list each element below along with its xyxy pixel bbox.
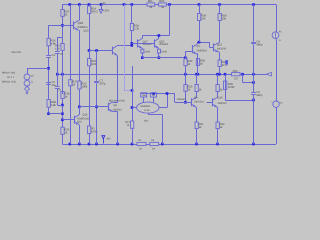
svg-text:Q15: Q15 <box>217 44 223 47</box>
svg-text:R35: R35 <box>233 70 238 73</box>
svg-text:R60: R60 <box>159 0 164 3</box>
svg-text:2N5550: 2N5550 <box>217 102 227 105</box>
svg-text:470p: 470p <box>99 83 105 86</box>
svg-text:7u: 7u <box>60 53 63 56</box>
svg-text:10u: 10u <box>51 84 56 87</box>
svg-text:2N5550L: 2N5550L <box>113 108 123 111</box>
svg-text:R61: R61 <box>148 0 153 3</box>
svg-text:100R: 100R <box>161 51 167 54</box>
svg-text:Q18: Q18 <box>77 121 82 124</box>
svg-text:BD140/Q17 BD: BD140/Q17 BD <box>109 99 125 102</box>
svg-text:LV16: LV16 <box>144 109 150 112</box>
svg-text:500.5: 500.5 <box>91 10 98 13</box>
svg-text:3.3k: 3.3k <box>134 28 140 31</box>
svg-text:+35V: +35V <box>103 9 110 12</box>
svg-text:+E6+67k: +E6+67k <box>11 51 22 54</box>
svg-text:Q7: Q7 <box>197 45 201 48</box>
svg-text:680p: 680p <box>256 94 262 97</box>
svg-text:2N5551A: 2N5551A <box>197 50 208 53</box>
svg-text:2N5550A: 2N5550A <box>77 26 88 29</box>
svg-text:100R: 100R <box>145 51 151 54</box>
svg-text:Q10: Q10 <box>217 97 223 100</box>
svg-text:2N5550: 2N5550 <box>217 47 227 50</box>
svg-text:0.5: 0.5 <box>234 77 238 80</box>
svg-text:100R: 100R <box>228 86 234 89</box>
svg-text:2N5550L: 2N5550L <box>177 98 187 101</box>
svg-text:10k: 10k <box>201 18 206 21</box>
svg-text:Q16: Q16 <box>82 113 88 116</box>
svg-text:-35V: -35V <box>106 138 111 141</box>
svg-text:BRD2(+10k): BRD2(+10k) <box>2 72 15 75</box>
svg-text:6.8k: 6.8k <box>51 104 57 107</box>
svg-text:+CMMMA: +CMMMA <box>140 105 151 108</box>
svg-text:C4: C4 <box>51 54 55 57</box>
svg-text:BRD2(1 20k): BRD2(1 20k) <box>2 80 16 83</box>
svg-text:680p: 680p <box>256 44 262 47</box>
svg-text:4.4k: 4.4k <box>51 43 57 46</box>
svg-text:10k: 10k <box>222 18 227 21</box>
svg-text:AC 1 1: AC 1 1 <box>7 76 15 79</box>
svg-text:100k: 100k <box>81 86 87 89</box>
svg-text:Q18: Q18 <box>78 21 84 25</box>
svg-text:Q19: Q19 <box>84 30 89 33</box>
svg-text:2N5401: 2N5401 <box>159 43 169 46</box>
svg-text:2N5551A: 2N5551A <box>194 100 204 103</box>
